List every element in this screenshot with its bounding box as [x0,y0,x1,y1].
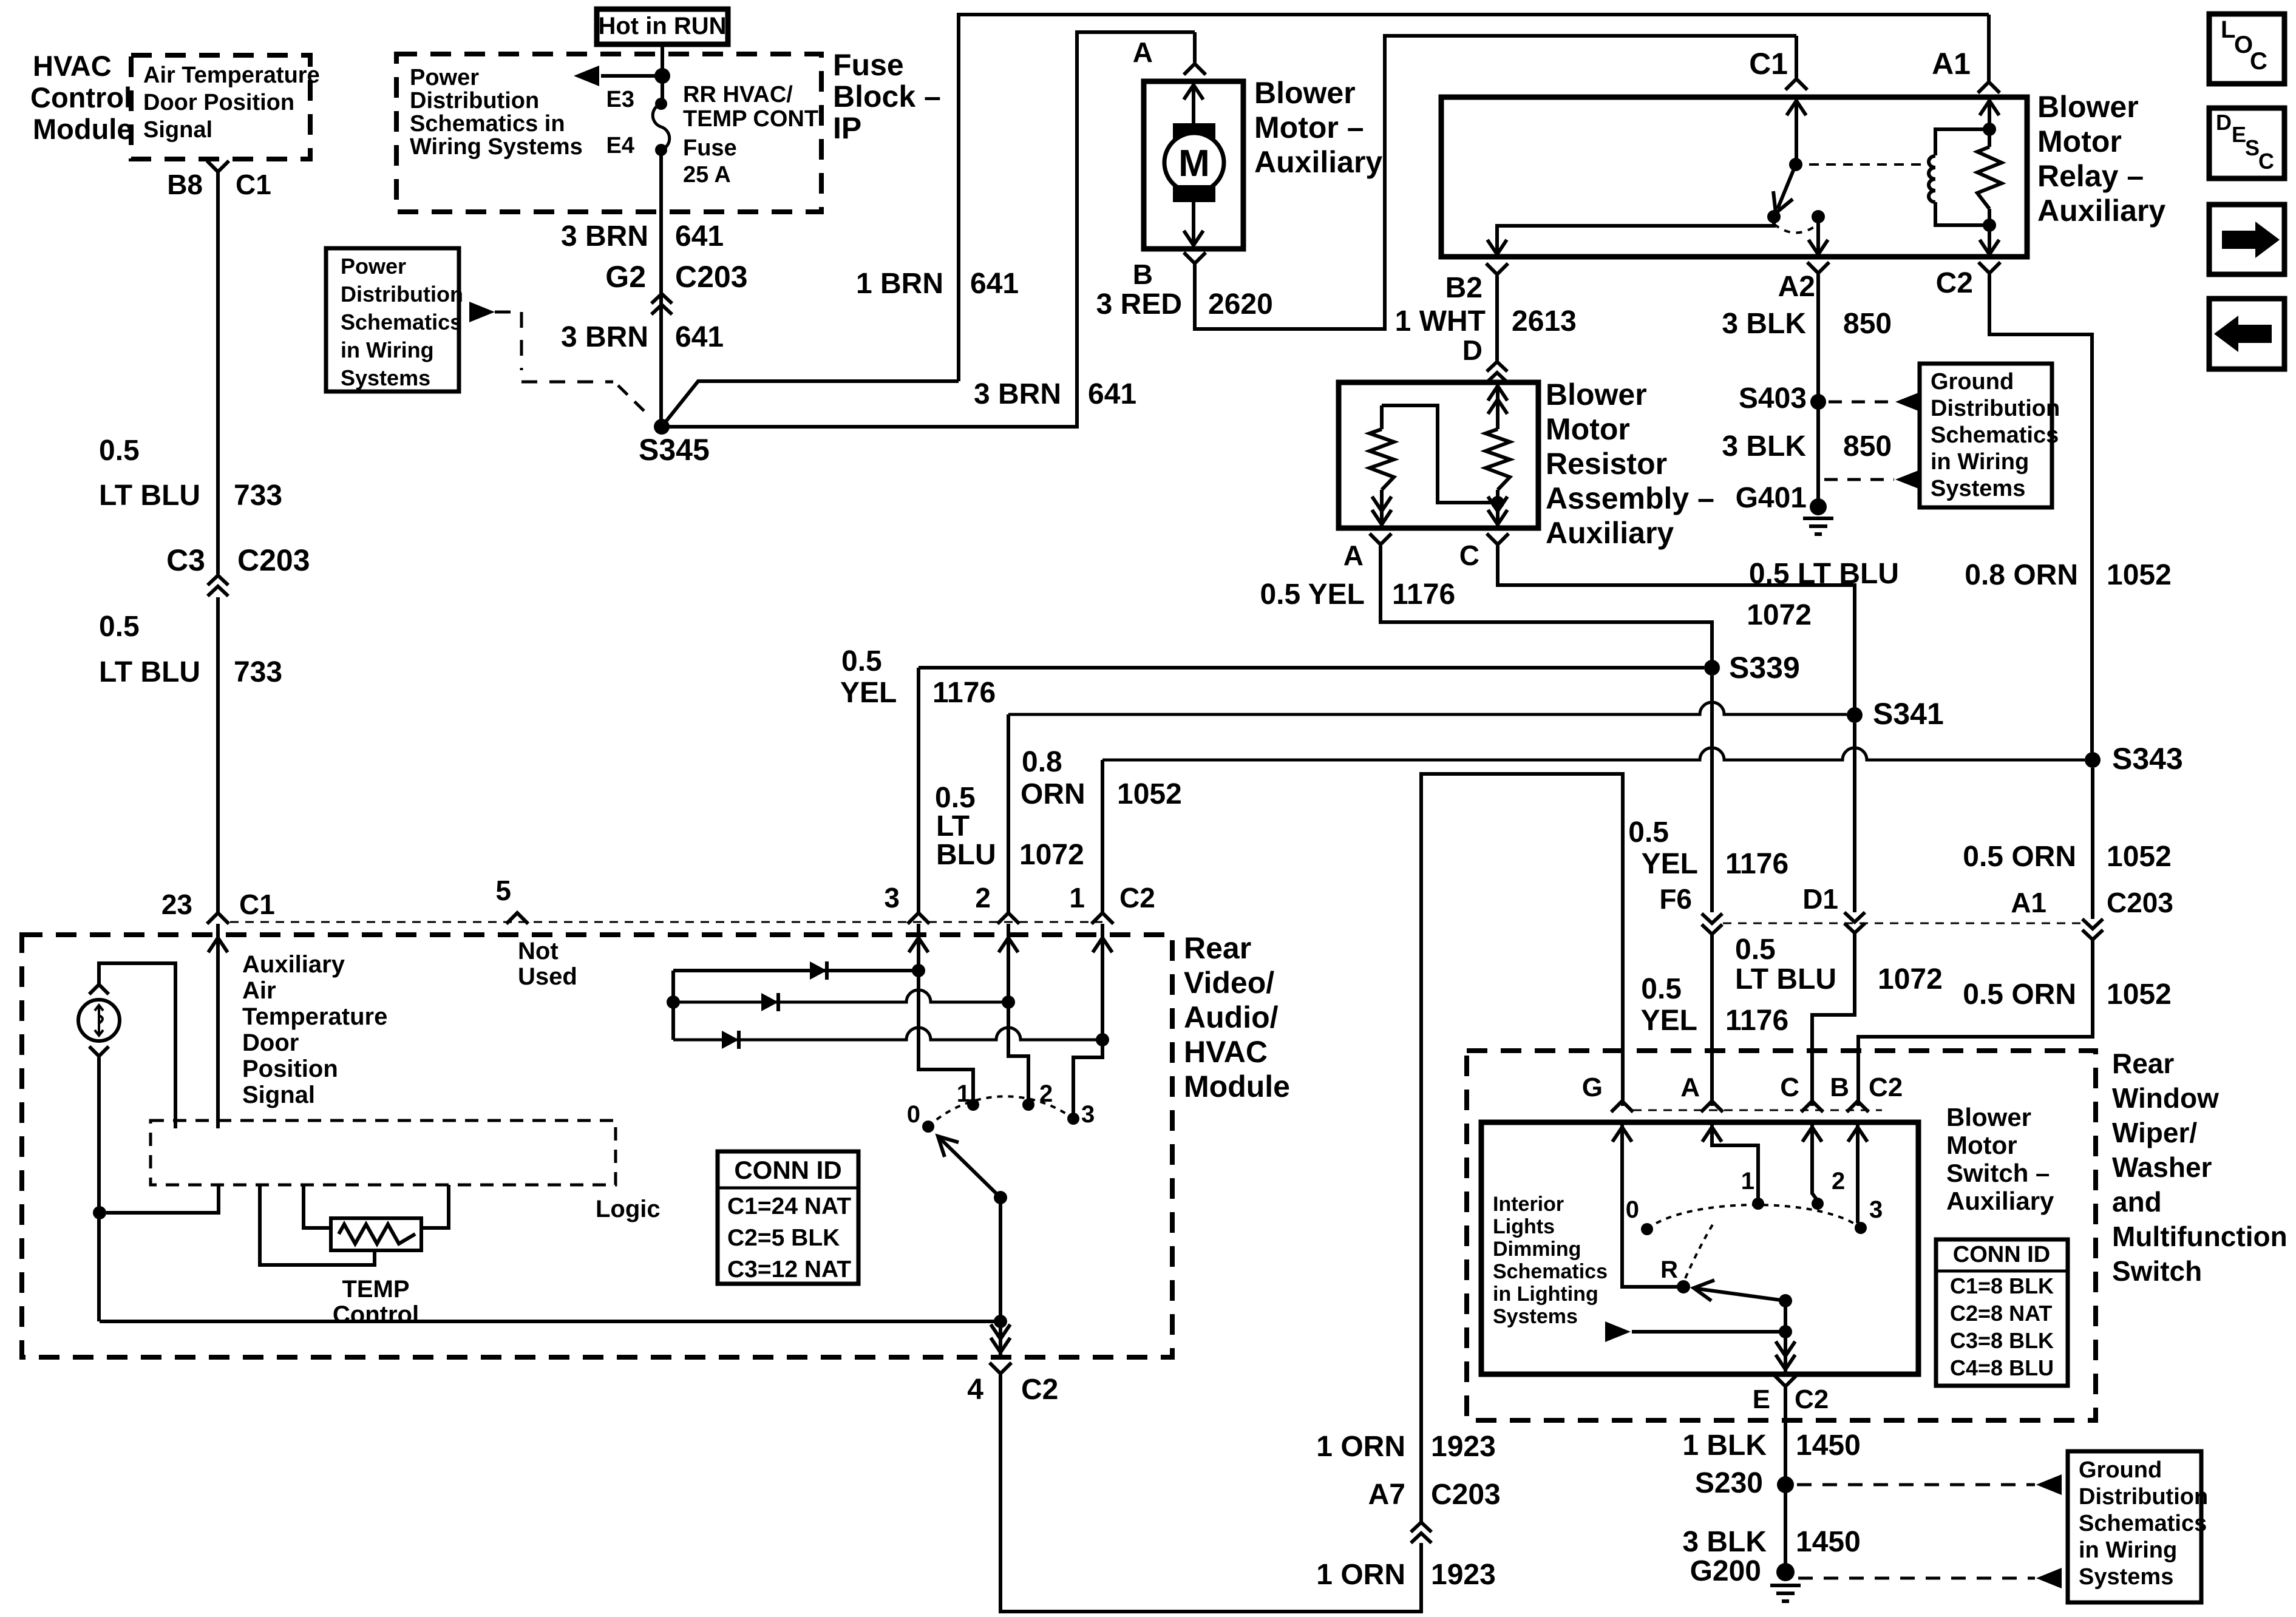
wire module pin2 vertical [1007,714,1010,913]
svg-text:3 BLK: 3 BLK [1722,308,1806,340]
svg-text:Fuse: Fuse [833,48,904,82]
svg-text:3 BRN: 3 BRN [561,321,648,353]
blower motor resistor assembly box [1339,382,1538,528]
fuse RR HVAC/TEMP CONT 25 A [653,104,670,150]
svg-text:M: M [1178,143,1210,185]
diode branch 1 [673,969,919,972]
resistor D internal wire [1496,385,1500,429]
svg-text:YEL: YEL [1642,848,1698,880]
svg-text:Auxiliary: Auxiliary [1946,1187,2054,1215]
svg-text:Auxiliary: Auxiliary [2037,194,2165,228]
module switch pivot [994,1191,1007,1204]
svg-text:A1: A1 [1932,47,1971,81]
svg-text:1072: 1072 [1747,599,1812,631]
Power Distribution Schematics box [326,248,459,392]
wire logic return to sensor wire [106,1185,219,1213]
wire 1 ORN 1923 pin4 to A7 [1000,1375,1421,1612]
svg-text:641: 641 [675,321,724,353]
motor brush bottom [1173,185,1215,202]
HVAC control module dashed box [131,55,310,159]
TEMP control resistor element [339,1224,415,1244]
motor arrow bottom [1192,202,1195,248]
svg-text:0.8: 0.8 [1022,746,1062,778]
svg-text:0.5 ORN: 0.5 ORN [1963,841,2076,873]
wire 3 BRN 641 to blower motor [662,32,1195,427]
svg-text:3: 3 [1081,1101,1095,1128]
svg-text:CONN ID: CONN ID [1953,1242,2050,1267]
svg-text:1072: 1072 [1878,963,1943,995]
svg-text:C3=12 NAT: C3=12 NAT [727,1256,851,1283]
svg-text:Washer: Washer [2112,1151,2212,1183]
svg-text:A: A [1343,540,1364,571]
svg-text:Multifunction: Multifunction [2112,1221,2288,1252]
resistor left lower lead [1380,490,1384,526]
switch contact 2 [1812,1198,1824,1210]
splice S230 [1777,1476,1794,1493]
svg-text:Ground: Ground [1931,369,2014,395]
relay coil bottom junction [1983,219,1996,232]
svg-text:S343: S343 [2112,742,2183,776]
wire 1 BRN 641 to vertical [662,381,959,427]
blower motor box [1144,81,1243,249]
svg-text:D: D [2216,110,2232,135]
switch CONN ID table [1936,1239,2068,1386]
svg-text:Schematics: Schematics [1931,422,2059,448]
svg-text:ORN: ORN [1021,778,1085,810]
svg-text:A2: A2 [1778,271,1815,303]
wire 0.5 LT BLU 1072 resistor C to S341 [1498,546,1855,715]
svg-text:Motor: Motor [1946,1131,2017,1159]
svg-text:Distribution: Distribution [341,282,463,307]
Hot in RUN box [597,9,728,44]
ground symbol G200 [1770,1585,1801,1601]
svg-text:G200: G200 [1690,1555,1761,1587]
LOC box [2209,14,2284,84]
svg-text:Blower: Blower [1546,378,1647,412]
svg-text:Fuse: Fuse [683,135,737,161]
svg-text:3 BLK: 3 BLK [1722,430,1806,463]
svg-text:0.5: 0.5 [1628,816,1669,849]
wire 0.5 LT BLU 1072 S341 to switch C [1812,723,1855,1106]
switch arm dot [1779,1294,1792,1307]
svg-text:Interior: Interior [1493,1193,1564,1216]
svg-text:0.8 ORN: 0.8 ORN [1965,559,2078,591]
svg-text:G: G [1582,1073,1603,1102]
svg-text:Power: Power [341,254,406,279]
inline connector C203 at F6 [1702,914,1722,934]
svg-text:Systems: Systems [1931,476,2025,501]
wire TEMP control wiper [260,1185,375,1265]
DESC box [2209,108,2284,178]
dimmer feed arrow [1605,1321,1631,1342]
svg-text:Audio/: Audio/ [1184,1000,1279,1034]
svg-text:733: 733 [234,656,282,688]
wire into relay A1 [1987,15,1991,81]
connector chevron E [1775,1375,1796,1386]
svg-text:Door Position: Door Position [143,90,294,115]
svg-text:641: 641 [1088,378,1136,410]
svg-text:0.5: 0.5 [99,435,140,467]
svg-text:1176: 1176 [932,677,996,709]
svg-text:1 ORN: 1 ORN [1316,1559,1405,1591]
resistor right lower lead [1496,490,1500,526]
inline connector C203 at A1 [2082,919,2103,940]
svg-text:Wiper/: Wiper/ [2112,1117,2197,1148]
wire sensor bottom [97,1057,101,1321]
svg-text:B8: B8 [167,169,203,200]
svg-text:Used: Used [518,963,577,990]
svg-text:Door: Door [242,1029,299,1056]
wire pin 3 into module [919,924,973,1105]
wire 3 BLK 1450 [1784,1485,1787,1572]
arrow to power distribution schematics [574,66,599,86]
dashed leader to S345 [495,312,613,382]
wire to power distribution arrow [601,74,662,78]
svg-text:733: 733 [234,480,282,512]
svg-text:C1=8 BLK: C1=8 BLK [1950,1273,2054,1298]
svg-text:Schematics: Schematics [341,310,462,334]
svg-text:Blower: Blower [2037,90,2139,124]
connector chevron relay A1 [1978,82,2000,93]
diode branch 3 [673,1028,1102,1040]
junction sensor/logic return [93,1206,106,1219]
connector chevron resistor C [1487,534,1509,544]
svg-text:Position: Position [242,1056,338,1082]
svg-text:A: A [1133,36,1153,68]
svg-text:S341: S341 [1873,697,1944,731]
svg-text:C1=24 NAT: C1=24 NAT [727,1193,851,1219]
svg-text:641: 641 [675,220,724,253]
svg-text:C: C [2258,149,2274,174]
connector chevron motor B [1184,253,1206,263]
svg-text:Not: Not [518,938,559,964]
svg-text:TEMP CONT: TEMP CONT [683,106,818,132]
svg-text:1923: 1923 [1431,1559,1496,1591]
relay arm arrowhead [1773,191,1793,213]
svg-text:Module: Module [33,113,132,145]
wire relay NO to A2 [1816,217,1820,254]
svg-text:Air Temperature: Air Temperature [143,63,320,88]
wire sensor top to logic [99,963,175,1128]
svg-text:E: E [2232,122,2246,147]
wire pin 23 into module [216,924,220,1128]
relay resistor leads [1988,129,1991,225]
dashed leader G401 to ground dist box [1824,478,1894,481]
svg-text:C: C [1459,540,1479,571]
relay coil loop wire [1935,129,1989,225]
svg-text:C1: C1 [1749,47,1788,81]
svg-text:C203: C203 [675,260,748,294]
svg-text:S403: S403 [1739,382,1807,415]
wire into relay C1 [1795,36,1798,78]
svg-text:Distribution: Distribution [410,88,539,114]
junction branch2 pin2 [1002,995,1015,1009]
connector chevron A2 [1807,262,1829,273]
svg-text:Temperature: Temperature [242,1003,387,1030]
dashed leader G200 [1798,1577,2035,1580]
ground distribution box (upper) [1920,364,2052,507]
svg-text:4: 4 [967,1374,983,1406]
ground distribution box (lower) [2068,1451,2201,1602]
module switch dashed arc [928,1096,1073,1127]
svg-text:1052: 1052 [2107,978,2172,1011]
svg-text:and: and [2112,1186,2162,1218]
relay common contact [1789,158,1802,171]
switch contact R [1677,1280,1690,1293]
wire logic to TEMP control left [304,1185,331,1228]
svg-text:Ground: Ground [2079,1457,2162,1483]
svg-text:2620: 2620 [1208,288,1273,320]
svg-text:LT BLU: LT BLU [1735,963,1836,995]
connector chevron relay C1 [1785,79,1807,90]
svg-text:0.5 YEL: 0.5 YEL [1260,578,1365,611]
svg-text:Auxiliary: Auxiliary [1546,516,1674,550]
svg-text:Schematics: Schematics [1493,1260,1608,1283]
svg-text:S: S [2245,135,2260,160]
junction diode bus [667,995,680,1009]
svg-text:0.5 LT BLU: 0.5 LT BLU [1749,558,1899,590]
svg-text:TEMP: TEMP [342,1276,409,1303]
svg-text:YEL: YEL [840,677,897,709]
svg-text:C: C [1780,1073,1799,1102]
switch contact 0 [1641,1223,1653,1235]
svg-text:1176: 1176 [1725,848,1788,880]
svg-text:C203: C203 [2107,887,2173,918]
svg-text:E4: E4 [606,133,634,158]
svg-text:Switch: Switch [2112,1255,2202,1287]
svg-text:3: 3 [884,882,900,914]
svg-text:23: 23 [161,889,192,920]
svg-text:Wiring Systems: Wiring Systems [410,134,583,160]
splice S403 [1810,394,1826,410]
svg-text:0.5: 0.5 [1735,934,1776,966]
splice S345 [654,419,670,435]
svg-text:Logic: Logic [596,1196,661,1222]
svg-text:Module: Module [1184,1070,1290,1103]
svg-text:C1: C1 [236,169,271,200]
switch output wire to E [1784,1332,1787,1372]
sensor bottom chevron [89,1046,109,1056]
switch pin chevron C [1801,1101,1823,1112]
svg-text:BLU: BLU [936,839,996,871]
wire module pin3 vertical [917,668,920,913]
svg-text:3 RED: 3 RED [1096,288,1182,320]
wire 0.5 YEL 1176 S339 to module pin3 [919,666,1704,670]
svg-text:Auxiliary: Auxiliary [1254,145,1382,179]
svg-text:Relay –: Relay – [2037,159,2144,193]
dashed leader S403 to ground dist box [1829,401,1894,404]
svg-text:1052: 1052 [1117,778,1182,810]
svg-text:1450: 1450 [1796,1526,1861,1558]
left arrow icon [2214,316,2272,352]
switch pin chevron G [1611,1101,1633,1112]
splice S339 [1704,660,1720,676]
svg-text:YEL: YEL [1641,1005,1697,1037]
svg-text:C2: C2 [1021,1374,1058,1406]
svg-text:Resistor: Resistor [1546,447,1667,481]
module switch contact 0 [922,1120,934,1133]
svg-text:1052: 1052 [2107,559,2172,591]
svg-text:C203: C203 [1431,1479,1501,1511]
svg-text:Signal: Signal [242,1082,315,1108]
rear window wiper module dashed box [1467,1051,2096,1420]
blower motor switch box [1481,1122,1918,1374]
svg-text:1 WHT: 1 WHT [1395,305,1486,337]
dashed leader S230 [1797,1483,2035,1486]
relay switch arm [1778,164,1796,209]
splice S341 [1847,707,1863,723]
arrow right box [2209,205,2284,274]
svg-text:Lights: Lights [1493,1215,1555,1238]
switch B internal wire [1856,1125,1860,1223]
connector chevron B2 [1486,263,1508,274]
svg-text:S230: S230 [1695,1467,1763,1499]
svg-text:Distribution: Distribution [1931,396,2060,421]
rear video audio hvac module dashed box [22,935,1172,1357]
svg-text:in Wiring: in Wiring [2079,1537,2177,1563]
wire 0.5 YEL 1176 resistor A to S339 [1381,546,1712,668]
resistor internal junction [1491,496,1504,509]
svg-text:0.5: 0.5 [1641,973,1682,1005]
switch arm to output [1784,1301,1787,1332]
arrow G200 leader [2036,1568,2062,1588]
resistor element left [1370,429,1394,490]
svg-text:Rear: Rear [2112,1048,2174,1079]
right arrow icon [2222,222,2280,258]
switch CONN ID header underline [1936,1270,2068,1273]
svg-text:Window: Window [2112,1082,2219,1114]
svg-text:CONN ID: CONN ID [734,1156,841,1184]
diode left bus wire [671,971,675,1040]
svg-text:1 BRN: 1 BRN [856,268,943,300]
wire 3 BLK 850 lower [1816,402,1820,507]
svg-text:F6: F6 [1659,883,1692,915]
svg-text:Blower: Blower [1946,1103,2031,1131]
svg-text:in Wiring: in Wiring [341,337,434,362]
switch dashed arc [1647,1205,1861,1278]
switch pin chevron A [1701,1101,1723,1112]
wire pin 2 into module [1008,924,1028,1105]
switch pin chevron B [1847,1101,1869,1112]
inline connector C203 at G2 [651,294,672,314]
relay coil to C2 [1988,225,1991,254]
svg-text:Systems: Systems [2079,1564,2173,1590]
svg-text:0.5: 0.5 [841,645,882,677]
logic dashed box [151,1120,616,1185]
connector chevron C2 (relay) [1978,262,2000,273]
svg-text:0.5: 0.5 [99,611,140,643]
svg-text:Schematics in: Schematics in [410,111,565,137]
svg-text:C2: C2 [1869,1073,1903,1102]
svg-text:LT BLU: LT BLU [99,480,200,512]
connector B8 C1 chevron [207,161,229,172]
svg-text:Dimming: Dimming [1493,1238,1581,1261]
svg-text:D1: D1 [1802,883,1838,915]
junction branch3 pin1 [1096,1033,1109,1046]
blower motor relay box [1441,97,2027,257]
wire pin 1 into module [1073,924,1102,1119]
dimmer feed line [1632,1330,1785,1334]
wire sensor return horizontal [100,1320,1000,1323]
relay C1 internal wire [1795,100,1798,164]
svg-text:Assembly –: Assembly – [1546,481,1714,515]
svg-text:Systems: Systems [1493,1305,1578,1328]
wire relay NC to B2 [1497,217,1774,254]
relay coil top junction [1983,123,1996,136]
junction pivot/sensor return [994,1315,1007,1328]
svg-text:Rear: Rear [1184,931,1251,965]
sensor top chevron [89,985,109,994]
motor M circle [1164,133,1224,192]
svg-text:25 A: 25 A [683,162,731,188]
svg-text:RR HVAC/: RR HVAC/ [683,82,793,107]
svg-text:1: 1 [1741,1168,1754,1195]
arrow S230 leader [2036,1474,2062,1495]
switch arm arrowhead [1694,1280,1714,1301]
module pin chevron 2 [997,913,1019,924]
arrow S403 leader [1895,393,1918,411]
svg-text:R: R [1660,1256,1678,1283]
sensor internal symbol [95,1005,103,1036]
resistor left upper lead [1380,405,1384,429]
svg-text:LT BLU: LT BLU [99,656,200,688]
svg-text:C2=5 BLK: C2=5 BLK [727,1225,840,1251]
svg-text:0.5 ORN: 0.5 ORN [1963,978,2076,1011]
svg-text:LT: LT [936,810,970,842]
thin dashed connector line at switch [1633,1110,1882,1111]
svg-text:HVAC: HVAC [33,50,112,82]
switch output junction [1779,1325,1792,1338]
svg-text:Auxiliary: Auxiliary [242,951,345,978]
svg-text:1: 1 [1069,882,1085,914]
wire module pivot to pin 4 [999,1198,1002,1355]
svg-text:A: A [1680,1073,1700,1102]
svg-text:641: 641 [970,268,1019,300]
relay contact dashed arc [1774,224,1818,233]
module switch contact 1 [967,1099,979,1111]
wire 0.8 ORN 1052 S343 to module pin1 [1102,748,2085,760]
svg-text:C2: C2 [1936,267,1973,299]
svg-text:HVAC: HVAC [1184,1035,1268,1069]
svg-text:3 BRN: 3 BRN [561,220,648,253]
svg-text:Motor: Motor [1546,412,1630,446]
svg-text:Schematics: Schematics [2079,1511,2207,1536]
svg-text:1176: 1176 [1392,578,1455,611]
TEMP control resistor box [331,1218,421,1250]
svg-text:Blower: Blower [1254,76,1356,110]
dashed leader diagonal to S345 [618,385,645,412]
diode branch 2 [673,990,1008,1002]
relay NC contact [1767,210,1781,223]
svg-text:in Lighting: in Lighting [1493,1283,1598,1306]
resistor element right [1486,429,1510,490]
module switch arm arrowhead [938,1136,959,1157]
wire 3 BRN 641 fuse to S345 [659,150,663,427]
svg-text:L: L [2221,16,2235,43]
svg-text:850: 850 [1843,430,1892,463]
svg-text:D: D [1462,334,1483,366]
connector chevron motor A [1184,64,1206,75]
relay actuation dashed link [1809,163,1927,166]
svg-text:B: B [1133,259,1153,290]
motor brush top [1173,123,1215,140]
inline connector at resistor D [1487,362,1507,382]
svg-text:E3: E3 [606,87,634,112]
wire module pin1 vertical [1101,760,1104,913]
svg-text:C1: C1 [239,889,275,920]
wire 0.5 LT BLU 733 upper [216,172,220,574]
svg-text:G2: G2 [605,260,646,294]
